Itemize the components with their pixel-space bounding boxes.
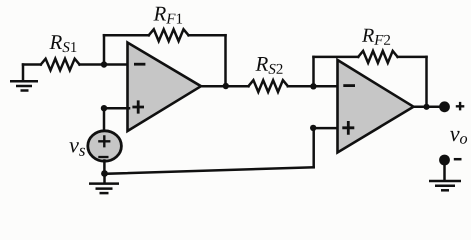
wire [103,161,106,174]
wire [103,108,106,131]
ground [89,174,119,194]
label RS1 [49,35,76,52]
node D [101,170,108,177]
label vs [69,142,85,156]
source vs minus [98,156,108,158]
wire [23,63,41,66]
resistor RF1 [149,29,189,41]
label RF2 [362,29,390,45]
wire [189,34,226,37]
resistor RS2 [249,80,288,92]
op-amp U2 [338,60,414,153]
wire [224,35,227,86]
wire [314,56,359,59]
terminal plus [439,101,450,112]
ground [10,65,38,91]
node E [310,125,316,131]
terminal minus [439,155,450,166]
resistor RF2 [358,51,397,63]
pin plus U1 [132,100,144,113]
pin minus U2 [343,84,355,87]
op-amp U1 [128,43,202,132]
ground [429,166,461,191]
label vo [450,131,467,144]
pin minus U1 [134,63,145,66]
wire [80,63,128,66]
source vs plus [98,135,110,147]
wire [288,85,338,88]
wire [414,105,441,108]
node G [423,104,429,110]
wire [312,128,315,167]
wire [104,107,129,110]
resistor RS1 [41,59,80,71]
label RF1 [153,7,182,24]
wire [201,85,249,88]
pin plus U2 [342,121,354,135]
wire [312,57,315,86]
wire [313,127,337,130]
node B [223,83,229,89]
label plus [456,102,465,111]
wire [103,35,106,64]
node A [101,61,107,67]
source vs [88,131,122,161]
wire [104,34,149,37]
wire [398,56,427,59]
node C [101,105,107,111]
label minus [454,158,462,161]
wire [425,57,428,107]
wire [105,167,314,174]
label RS2 [255,57,282,74]
node F [310,83,316,89]
